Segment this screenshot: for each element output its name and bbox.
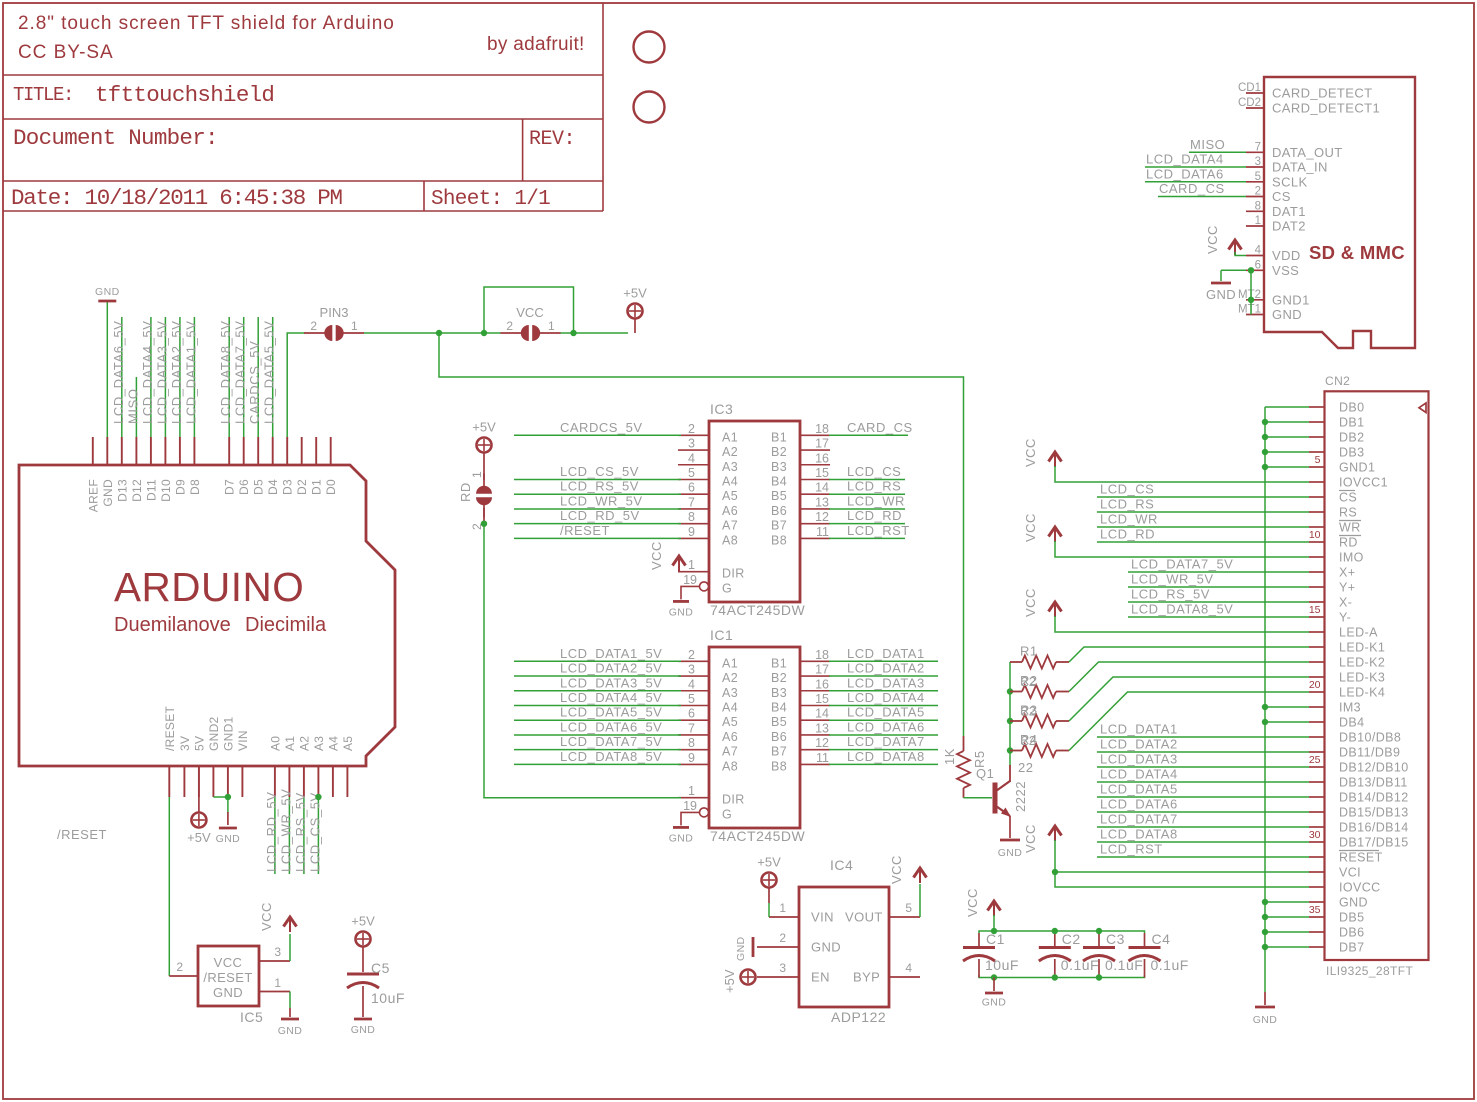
svg-text:LCD_RST: LCD_RST	[1100, 842, 1163, 857]
wire R1 to LED-K1	[1069, 647, 1309, 662]
svg-text:A8: A8	[722, 759, 738, 773]
svg-text:5: 5	[688, 692, 695, 706]
svg-text:LCD_RD_5V: LCD_RD_5V	[560, 508, 640, 523]
svg-text:12: 12	[815, 510, 829, 524]
svg-text:GND: GND	[669, 832, 694, 844]
module SD & MMC	[1238, 77, 1415, 348]
svg-text:A4: A4	[722, 700, 738, 714]
wire Q1 collector	[1009, 662, 1011, 782]
label R4 value	[1018, 760, 1033, 775]
svg-text:LCD_DATA2: LCD_DATA2	[1100, 737, 1178, 752]
wires touch nets	[1128, 572, 1309, 617]
wire cap top bus	[979, 931, 1145, 933]
svg-text:VDD: VDD	[1272, 248, 1301, 263]
svg-text:GND: GND	[1339, 896, 1368, 910]
wires analog net stubs	[275, 797, 319, 874]
svg-text:DB17/DB15: DB17/DB15	[1339, 836, 1409, 850]
svg-text:15: 15	[1309, 604, 1321, 616]
svg-text:30: 30	[1309, 829, 1321, 841]
svg-text:LCD_DATA3: LCD_DATA3	[1100, 752, 1178, 767]
svg-text:11: 11	[816, 751, 829, 765]
svg-text:LCD_DATA7_5V: LCD_DATA7_5V	[560, 734, 662, 749]
svg-text:19: 19	[683, 799, 697, 813]
power +5V RD	[472, 420, 496, 481]
module ARDUINO outline	[19, 465, 395, 766]
svg-text:LCD_DATA1_5V: LCD_DATA1_5V	[560, 646, 662, 661]
svg-text:LCD_CS_5V: LCD_CS_5V	[307, 792, 322, 872]
svg-text:GND1: GND1	[221, 716, 235, 751]
ic IC4 ADP122	[757, 857, 920, 1025]
svg-text:8: 8	[688, 736, 695, 750]
svg-text:GND1: GND1	[1272, 292, 1310, 307]
svg-text:X+: X+	[1339, 566, 1355, 580]
svg-text:LCD_DATA1: LCD_DATA1	[847, 646, 925, 661]
svg-text:LCD_DATA5: LCD_DATA5	[847, 705, 925, 720]
svg-text:CS: CS	[1272, 189, 1291, 204]
svg-text:16: 16	[815, 677, 829, 691]
svg-text:6: 6	[688, 707, 695, 721]
svg-text:LCD_DATA7: LCD_DATA7	[1100, 812, 1178, 827]
junction R2	[1007, 688, 1013, 694]
svg-text:2: 2	[1255, 186, 1261, 198]
svg-text:4: 4	[905, 961, 912, 975]
svg-text:14: 14	[815, 481, 829, 495]
svg-text:IC5: IC5	[240, 1009, 263, 1025]
junction GND1	[225, 794, 231, 800]
svg-text:A3: A3	[722, 686, 738, 700]
svg-text:A2: A2	[722, 671, 738, 685]
svg-text:LCD_WR_5V: LCD_WR_5V	[560, 493, 643, 508]
ic IC1 74ACT245DW	[514, 627, 938, 844]
svg-text:ADP122: ADP122	[831, 1009, 886, 1025]
svg-text:SCLK: SCLK	[1272, 174, 1308, 189]
svg-text:0.1uF: 0.1uF	[1151, 957, 1189, 973]
wire R5 to Q1 base	[964, 797, 993, 799]
svg-text:Diecimila: Diecimila	[245, 614, 327, 636]
svg-text:LCD_WR: LCD_WR	[847, 493, 905, 508]
svg-text:+5V: +5V	[623, 286, 647, 301]
svg-text:10: 10	[1309, 529, 1321, 541]
svg-text:DAT2: DAT2	[1272, 219, 1306, 234]
svg-text:RESET: RESET	[1339, 851, 1383, 865]
svg-text:DB4: DB4	[1339, 716, 1365, 730]
wire PIN3 to +5V	[364, 332, 628, 334]
wire RD to LCD_RD_5V	[483, 508, 485, 524]
svg-text:B5: B5	[771, 715, 787, 729]
svg-text:MT1: MT1	[1238, 304, 1261, 316]
svg-text:BYP: BYP	[853, 970, 880, 985]
svg-text:20: 20	[1309, 679, 1321, 691]
svg-text:VIN: VIN	[236, 730, 250, 751]
power +5V C5	[351, 914, 375, 973]
svg-text:B7: B7	[771, 519, 787, 533]
Document Number row	[13, 125, 218, 151]
byline	[487, 34, 585, 55]
resistor R3	[1010, 703, 1069, 728]
svg-text:D5: D5	[252, 479, 266, 495]
wire SD VSS gnd	[1221, 267, 1254, 314]
jumper RD	[458, 471, 492, 530]
label net /RESET	[57, 827, 107, 842]
svg-text:A5: A5	[341, 736, 355, 751]
svg-text:+5V: +5V	[351, 914, 375, 929]
label Duemilanove	[114, 614, 231, 636]
svg-text:VCC: VCC	[649, 541, 664, 570]
svg-text:CARD_CS: CARD_CS	[1159, 181, 1225, 196]
junction cap bot C2	[1052, 974, 1058, 980]
svg-text:CD1: CD1	[1238, 82, 1261, 94]
ground C5	[351, 1019, 376, 1036]
svg-text:19: 19	[683, 573, 697, 587]
svg-text:4: 4	[688, 451, 695, 465]
junction cap top C3	[1096, 928, 1102, 934]
svg-text:LCD_DATA4_5V: LCD_DATA4_5V	[140, 320, 155, 424]
svg-text:VCC: VCC	[889, 855, 904, 884]
svg-text:D9: D9	[173, 479, 187, 495]
svg-text:A4: A4	[722, 474, 738, 488]
svg-text:RD: RD	[1339, 536, 1358, 550]
svg-text:GND2: GND2	[207, 716, 221, 751]
jumper PIN3	[304, 305, 364, 341]
svg-text:0.1uF: 0.1uF	[1061, 957, 1099, 973]
svg-text:14: 14	[815, 707, 829, 721]
svg-text:1: 1	[351, 319, 358, 333]
svg-text:R1: R1	[1020, 644, 1038, 659]
svg-text:LCD_DATA7_5V: LCD_DATA7_5V	[1131, 557, 1233, 572]
svg-text:12: 12	[815, 736, 829, 750]
svg-text:C4: C4	[1152, 931, 1171, 947]
svg-text:DB15/DB13: DB15/DB13	[1339, 806, 1409, 820]
svg-text:CARD_DETECT: CARD_DETECT	[1272, 86, 1372, 101]
svg-text:LCD_RS: LCD_RS	[847, 479, 901, 494]
svg-text:10uF: 10uF	[371, 990, 405, 1006]
svg-text:LCD_DATA5_5V: LCD_DATA5_5V	[560, 705, 662, 720]
svg-text:LED-K4: LED-K4	[1339, 686, 1385, 700]
svg-text:LCD_DATA8: LCD_DATA8	[1100, 827, 1178, 842]
svg-text:2: 2	[176, 960, 183, 974]
svg-text:3: 3	[1255, 156, 1261, 168]
svg-text:GND: GND	[216, 833, 241, 845]
junction A	[436, 330, 442, 336]
svg-text:GND: GND	[1206, 287, 1236, 302]
svg-text:D0: D0	[324, 479, 338, 495]
wire R4 to LED-K4	[1069, 692, 1309, 751]
svg-text:LCD_DATA7_5V: LCD_DATA7_5V	[233, 320, 248, 424]
svg-text:DB11/DB9: DB11/DB9	[1339, 746, 1400, 760]
svg-text:7: 7	[1255, 141, 1261, 153]
svg-text:LCD_DATA1_5V: LCD_DATA1_5V	[183, 320, 198, 424]
wire R2 to LED-K2	[1069, 662, 1309, 692]
svg-text:1: 1	[274, 976, 281, 990]
svg-text:11: 11	[816, 525, 829, 539]
svg-text:1: 1	[470, 471, 484, 478]
svg-text:22: 22	[1021, 704, 1036, 719]
svg-text:AREF: AREF	[86, 479, 100, 512]
svg-text:A1: A1	[722, 656, 738, 670]
svg-text:B7: B7	[771, 745, 787, 759]
svg-text:LCD_DATA8: LCD_DATA8	[847, 749, 925, 764]
ground sym top-left	[95, 286, 120, 301]
vcc arrow IC5	[259, 902, 297, 961]
junction R3	[1007, 718, 1013, 724]
svg-text:EN: EN	[811, 970, 830, 985]
svg-text:LCD_CS: LCD_CS	[1100, 482, 1154, 497]
labels touch nets	[1131, 557, 1233, 617]
svg-text:CARDCS_5V: CARDCS_5V	[247, 341, 262, 424]
svg-text:LCD_DATA6: LCD_DATA6	[1146, 166, 1224, 181]
ground arduino	[216, 828, 241, 845]
svg-text:15: 15	[815, 692, 829, 706]
svg-text:GND: GND	[278, 1025, 303, 1037]
svg-text:5: 5	[1315, 454, 1321, 466]
svg-text:GND: GND	[998, 847, 1023, 859]
svg-text:D10: D10	[159, 479, 173, 502]
svg-text:TITLE:: TITLE:	[13, 84, 73, 106]
svg-text:IOVCC: IOVCC	[1339, 881, 1381, 895]
svg-text:B6: B6	[771, 730, 787, 744]
svg-text:VCC: VCC	[259, 902, 274, 931]
junction RD	[481, 521, 487, 527]
svg-text:10uF: 10uF	[985, 957, 1019, 973]
svg-text:6: 6	[688, 481, 695, 495]
wire VCC bypass loop	[484, 287, 574, 333]
svg-text:5V: 5V	[192, 736, 206, 751]
svg-text:B5: B5	[771, 489, 787, 503]
vcc arrow IMO	[1023, 513, 1309, 557]
svg-text:A7: A7	[722, 519, 738, 533]
svg-text:C2: C2	[1062, 931, 1081, 947]
svg-text:GND: GND	[669, 606, 694, 618]
svg-text:Y-: Y-	[1339, 611, 1351, 625]
power +5V IC4	[757, 855, 781, 918]
svg-text:LCD_DATA7: LCD_DATA7	[847, 734, 925, 749]
svg-text:LCD_DATA6_5V: LCD_DATA6_5V	[111, 320, 126, 424]
svg-text:B8: B8	[771, 533, 787, 547]
svg-text:tfttouchshield: tfttouchshield	[95, 82, 274, 108]
ground caps	[982, 978, 1007, 1009]
svg-text:LCD_RS_5V: LCD_RS_5V	[560, 479, 639, 494]
junction R4	[1007, 747, 1013, 753]
wires gnd bus stubs	[1265, 407, 1309, 947]
svg-text:17: 17	[815, 437, 829, 451]
svg-text:LCD_DATA8_5V: LCD_DATA8_5V	[218, 320, 233, 424]
svg-text:CN2: CN2	[1325, 374, 1350, 388]
svg-text:25: 25	[1309, 754, 1321, 766]
svg-text:VCC: VCC	[965, 888, 980, 917]
labels LCD data nets	[1100, 722, 1178, 857]
svg-text:GND: GND	[1272, 307, 1302, 322]
svg-text:74ACT245DW: 74ACT245DW	[710, 828, 806, 844]
svg-text:LCD_RS: LCD_RS	[1100, 497, 1154, 512]
wires SD nets	[1145, 152, 1246, 196]
svg-text:3: 3	[274, 945, 281, 959]
svg-text:74ACT245DW: 74ACT245DW	[710, 602, 806, 618]
svg-text:5: 5	[905, 901, 912, 915]
svg-text:LED-A: LED-A	[1339, 626, 1378, 640]
svg-text:DIR: DIR	[722, 567, 745, 581]
svg-text:A6: A6	[722, 730, 738, 744]
svg-text:5: 5	[1255, 171, 1261, 183]
svg-text:1: 1	[1255, 215, 1261, 227]
svg-text:LCD_RS_5V: LCD_RS_5V	[293, 792, 308, 872]
junction C	[570, 330, 576, 336]
vcc arrow IC3 DIR	[649, 541, 686, 572]
svg-text:G: G	[722, 581, 732, 595]
svg-text:1: 1	[688, 784, 695, 798]
arduino top pin stubs	[93, 437, 331, 465]
labels analog net stubs	[264, 789, 323, 872]
svg-text:2: 2	[688, 648, 695, 662]
svg-text:LCD_RD: LCD_RD	[1100, 527, 1155, 542]
svg-text:DATA_IN: DATA_IN	[1272, 160, 1328, 175]
svg-text:LCD_DATA4: LCD_DATA4	[1146, 152, 1224, 167]
svg-text:B4: B4	[771, 700, 787, 714]
svg-text:13: 13	[815, 721, 829, 735]
svg-text:LCD_WR: LCD_WR	[1100, 512, 1158, 527]
ground IC4 pin2	[735, 936, 753, 961]
svg-text:VCC: VCC	[1023, 438, 1038, 467]
svg-text:D8: D8	[188, 479, 202, 495]
svg-text:LCD_RST: LCD_RST	[847, 523, 910, 538]
svg-text:GND: GND	[351, 1024, 376, 1036]
ic IC5	[169, 945, 290, 1025]
svg-text:DB10/DB8: DB10/DB8	[1339, 731, 1401, 745]
svg-text:VCC: VCC	[214, 955, 243, 970]
svg-text:GND: GND	[1253, 1014, 1278, 1026]
junctions gnd bus	[1262, 419, 1268, 950]
junction cap bot C3	[1096, 974, 1102, 980]
svg-text:1K: 1K	[942, 748, 957, 765]
svg-text:LCD_RD: LCD_RD	[847, 508, 902, 523]
vcc arrow VCI/IOVCC	[1023, 824, 1309, 887]
svg-text:VCC: VCC	[516, 305, 543, 320]
svg-text:GND: GND	[811, 940, 841, 955]
svg-text:LCD_DATA3: LCD_DATA3	[847, 675, 925, 690]
svg-text:1: 1	[688, 558, 695, 572]
svg-text:5: 5	[688, 466, 695, 480]
svg-text:D13: D13	[115, 479, 129, 502]
capacitor C3	[1083, 931, 1143, 978]
svg-text:G: G	[722, 807, 732, 821]
title block frame	[3, 3, 603, 211]
svg-text:17: 17	[815, 663, 829, 677]
svg-text:3: 3	[779, 961, 786, 975]
svg-text:/RESET: /RESET	[163, 705, 177, 751]
svg-text:VCI: VCI	[1339, 866, 1361, 880]
svg-text:GND: GND	[95, 286, 120, 298]
svg-text:DB2: DB2	[1339, 431, 1365, 445]
svg-text:A1: A1	[283, 736, 297, 751]
svg-text:16: 16	[815, 451, 829, 465]
wire GND top	[106, 301, 108, 437]
wire GND2 join	[213, 796, 228, 798]
ground CN2	[1253, 992, 1278, 1026]
resistor R4	[1010, 732, 1069, 757]
svg-text:22: 22	[1021, 674, 1036, 689]
svg-text:2.8" touch screen TFT shield f: 2.8" touch screen TFT shield for Arduino	[18, 13, 395, 34]
svg-text:3: 3	[688, 663, 695, 677]
svg-text:LED-K1: LED-K1	[1339, 641, 1385, 655]
svg-text:22: 22	[1018, 760, 1033, 775]
power +5V arduino	[187, 766, 211, 845]
svg-text:LCD_WR_5V: LCD_WR_5V	[1131, 572, 1214, 587]
svg-text:B3: B3	[771, 686, 787, 700]
connector CN2	[1309, 374, 1429, 978]
svg-text:D1: D1	[310, 479, 324, 495]
svg-text:2: 2	[688, 422, 695, 436]
svg-text:VCC: VCC	[1023, 824, 1038, 853]
wires LCD ctl nets	[1097, 497, 1309, 542]
svg-text:DB1: DB1	[1339, 416, 1365, 430]
svg-text:CD2: CD2	[1238, 97, 1261, 109]
svg-text:B2: B2	[771, 671, 787, 685]
svg-text:D12: D12	[130, 479, 144, 502]
svg-text:LCD_DATA3_5V: LCD_DATA3_5V	[560, 675, 662, 690]
svg-text:9: 9	[688, 525, 695, 539]
svg-text:LCD_DATA6: LCD_DATA6	[847, 719, 925, 734]
label Diecimila	[245, 614, 327, 636]
svg-text:IC4: IC4	[830, 857, 853, 873]
svg-text:LCD_WR_5V: LCD_WR_5V	[278, 789, 293, 872]
labels LCD ctl nets	[1100, 482, 1158, 542]
vcc arrow LED-A	[1023, 588, 1309, 632]
wire GND1 down	[227, 797, 229, 825]
svg-text:+5V: +5V	[472, 420, 496, 435]
wire /RESET to IC5	[168, 797, 170, 976]
junction cap bot GND	[991, 974, 997, 980]
svg-text:A0: A0	[268, 736, 282, 751]
svg-text:GND: GND	[735, 936, 747, 961]
ground IC5	[278, 992, 303, 1038]
wire backlight feed	[439, 333, 964, 736]
svg-text:B4: B4	[771, 474, 787, 488]
svg-text:A5: A5	[722, 715, 738, 729]
svg-text:/RESET: /RESET	[57, 827, 107, 842]
svg-text:GND: GND	[982, 997, 1007, 1009]
svg-text:A1: A1	[722, 430, 738, 444]
svg-text:IC1: IC1	[710, 627, 733, 643]
Sheet label	[431, 188, 550, 211]
svg-text:LCD_DATA2_5V: LCD_DATA2_5V	[560, 661, 662, 676]
svg-text:IM3: IM3	[1339, 701, 1361, 715]
arduino bottom pin stubs	[169, 766, 347, 797]
svg-text:C5: C5	[371, 960, 390, 976]
title text line2	[18, 42, 114, 63]
svg-text:35: 35	[1309, 904, 1321, 916]
svg-text:2: 2	[779, 931, 786, 945]
svg-text:PIN3: PIN3	[320, 305, 349, 320]
svg-text:LCD_CS_5V: LCD_CS_5V	[560, 464, 639, 479]
svg-text:DB5: DB5	[1339, 911, 1365, 925]
svg-text:15: 15	[815, 466, 829, 480]
power +5V IC4 EN	[722, 969, 756, 993]
svg-text:Sheet: 1/1: Sheet: 1/1	[431, 188, 550, 211]
REV label	[529, 128, 575, 151]
svg-text:D3: D3	[281, 479, 295, 495]
hole H1	[634, 32, 665, 63]
svg-text:LCD_DATA2: LCD_DATA2	[847, 661, 925, 676]
ic IC3 74ACT245DW	[514, 401, 913, 618]
svg-text:7: 7	[688, 495, 695, 509]
svg-text:A3: A3	[722, 460, 738, 474]
svg-text:LED-K2: LED-K2	[1339, 656, 1385, 670]
svg-text:B6: B6	[771, 504, 787, 518]
hole H2	[634, 92, 665, 123]
svg-text:Document Number:: Document Number:	[13, 125, 218, 151]
svg-text:LCD_DATA6_5V: LCD_DATA6_5V	[560, 719, 662, 734]
svg-text:A8: A8	[722, 533, 738, 547]
svg-text:18: 18	[815, 648, 829, 662]
